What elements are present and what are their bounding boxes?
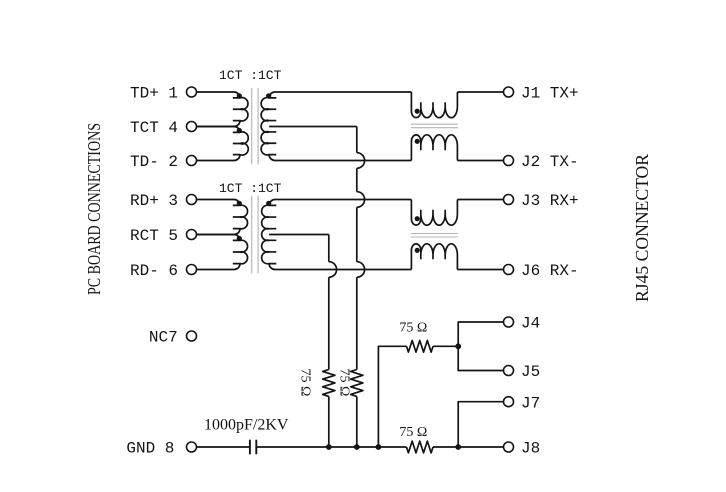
pin circle 2 (TD-) <box>187 156 197 166</box>
svg-text:NC7: NC7 <box>149 329 178 347</box>
T2 primary dot (pin5 side) <box>237 236 242 241</box>
T2 secondary dot <box>266 201 271 206</box>
wire node TCT-tap vertical upper <box>356 127 358 153</box>
svg-text:1CT :1CT: 1CT :1CT <box>219 181 282 196</box>
wire choke L2 to J3 <box>457 199 503 201</box>
wire choke L1 to J2 <box>457 160 503 162</box>
choke L1 top winding <box>411 92 457 118</box>
transformer T1 primary lower winding (pin4-pin2) <box>197 127 249 161</box>
wire vertical to resistor R1t <box>328 277 330 369</box>
T1 primary dot (pin1 side) <box>237 93 242 98</box>
pin circle 4 (TCT) <box>187 122 197 132</box>
svg-text:75 Ω: 75 Ω <box>399 425 427 440</box>
wire T1 secondary center tap <box>269 126 357 128</box>
choke L2 bottom winding <box>411 244 457 270</box>
wire ground bus to J8 <box>433 446 504 448</box>
svg-text:J2 TX-: J2 TX- <box>521 153 579 171</box>
capacitor C1 plate right <box>255 440 257 455</box>
choke L1 bottom winding <box>411 135 457 161</box>
pin circle J4 <box>504 317 514 327</box>
wire to J4 <box>458 322 503 346</box>
wire GND pin to capacitor <box>197 446 250 448</box>
choke L1 top dot <box>415 109 420 114</box>
choke L2 top winding <box>411 200 457 226</box>
junction branch/ground bus <box>376 444 382 450</box>
T1 secondary dot <box>266 93 271 98</box>
wire choke L1 to J1 <box>457 91 503 93</box>
transformer T1 secondary winding <box>261 92 276 160</box>
wire vertical segment 2 <box>356 207 358 261</box>
transformer T1 primary upper winding (pin1-pin4) <box>197 92 248 127</box>
choke L2 bottom dot <box>415 248 420 253</box>
svg-text:J3 RX+: J3 RX+ <box>521 192 579 210</box>
transformer T2 secondary winding <box>262 200 277 270</box>
choke L2 core line lower <box>411 236 458 238</box>
transformer T2 primary lower winding (pin5-pin6) <box>197 235 248 270</box>
junction J4/J5 split <box>455 343 461 349</box>
svg-text:PC BOARD CONNECTIONS: PC BOARD CONNECTIONS <box>84 123 104 295</box>
choke L1 bottom dot <box>415 139 420 144</box>
choke L1 core line lower <box>411 127 458 129</box>
wire T1 secondary bottom to choke L1 <box>275 160 411 162</box>
wire resistor to ground bus 2 <box>356 396 358 447</box>
svg-text:RCT 5: RCT 5 <box>130 227 178 245</box>
pin circle 1 (TD+) <box>187 87 197 97</box>
resistor 75ohm vertical right (T1 termination) <box>351 370 363 397</box>
wire to J5 <box>458 346 503 370</box>
wire hop over TD- wire (x=356.8) <box>357 153 365 169</box>
wire node RCT-tap vertical upper <box>328 235 330 262</box>
svg-text:GND 8: GND 8 <box>126 440 174 458</box>
transformer T2 core line left <box>251 196 253 274</box>
pin circle J7 <box>504 397 514 407</box>
resistor 75ohm vertical left (T2 termination) <box>323 370 335 397</box>
svg-text:75 Ω: 75 Ω <box>399 321 427 336</box>
svg-text:J8: J8 <box>521 440 540 458</box>
svg-text:RD+ 3: RD+ 3 <box>130 192 178 210</box>
svg-text:1CT :1CT: 1CT :1CT <box>219 68 282 83</box>
resistor 75ohm horizontal (J7/J8) <box>407 441 434 453</box>
svg-text:J4: J4 <box>521 315 540 333</box>
svg-text:RD- 6: RD- 6 <box>130 262 178 280</box>
wire resistor to junction <box>433 345 458 347</box>
svg-text:TCT 4: TCT 4 <box>130 119 178 137</box>
wire resistor to ground bus <box>328 396 330 447</box>
pin circle 7 (NC) <box>187 331 197 341</box>
svg-text:75 Ω: 75 Ω <box>298 369 313 397</box>
transformer T1 core line left <box>251 88 253 165</box>
choke L2 top dot <box>415 216 420 221</box>
wire to J7 <box>458 402 503 447</box>
pin circle J1 <box>504 87 514 97</box>
svg-text:J6 RX-: J6 RX- <box>521 262 579 280</box>
wire vertical segment <box>356 168 358 191</box>
wire T2 secondary bottom to choke L2 <box>275 269 411 271</box>
svg-text:75 Ω: 75 Ω <box>337 369 352 397</box>
svg-text:J1 TX+: J1 TX+ <box>521 85 579 103</box>
pin circle J3 <box>504 195 514 205</box>
wire choke L2 to J6 <box>457 269 503 271</box>
svg-text:RJ45 CONNECTOR: RJ45 CONNECTOR <box>632 154 652 302</box>
wire hop over RD+ wire (x=356.8) <box>357 192 365 208</box>
capacitor C1 plate left <box>249 440 251 455</box>
svg-text:J7: J7 <box>521 394 540 412</box>
resistor 75ohm horizontal (J4/J5) <box>407 340 434 352</box>
junction V1/ground bus <box>326 444 332 450</box>
junction V2/ground bus <box>354 444 360 450</box>
wire vertical to resistor R2t <box>356 277 358 369</box>
wire hop over RD- wire 2 (x=356.8) <box>357 262 365 278</box>
junction J7 split <box>455 444 461 450</box>
transformer T2 core line right <box>257 196 259 274</box>
transformer T2 primary upper winding (pin3-pin5) <box>197 200 248 235</box>
pin circle 5 (RCT) <box>187 230 197 240</box>
wire branch up to resistor R3t <box>378 346 406 447</box>
wire T2 secondary top to choke L2 <box>275 199 411 201</box>
choke L1 core line upper <box>411 123 458 125</box>
pin circle 6 (RD-) <box>187 265 197 275</box>
wire ground bus left section <box>256 446 406 448</box>
choke L2 core line upper <box>411 233 458 235</box>
wire T1 secondary top to choke L1 <box>275 91 411 93</box>
pin circle J8 <box>504 442 514 452</box>
T1 primary dot (pin4 side) <box>237 128 242 133</box>
pin circle 3 (RD+) <box>187 195 197 205</box>
svg-text:J5: J5 <box>521 363 540 381</box>
svg-text:1000pF/2KV: 1000pF/2KV <box>204 417 289 434</box>
pin circle J2 <box>504 156 514 166</box>
pin circle J5 <box>504 366 514 376</box>
transformer T1 core line right <box>257 88 259 165</box>
wire hop over RD- wire (x=328.8) <box>329 262 337 278</box>
svg-text:TD+ 1: TD+ 1 <box>130 85 178 103</box>
T2 primary dot (pin3 side) <box>237 201 242 206</box>
wire T2 secondary center tap <box>269 234 329 236</box>
pin circle 8 (GND) <box>187 442 197 452</box>
pin circle J6 <box>504 265 514 275</box>
svg-text:TD- 2: TD- 2 <box>130 153 178 171</box>
